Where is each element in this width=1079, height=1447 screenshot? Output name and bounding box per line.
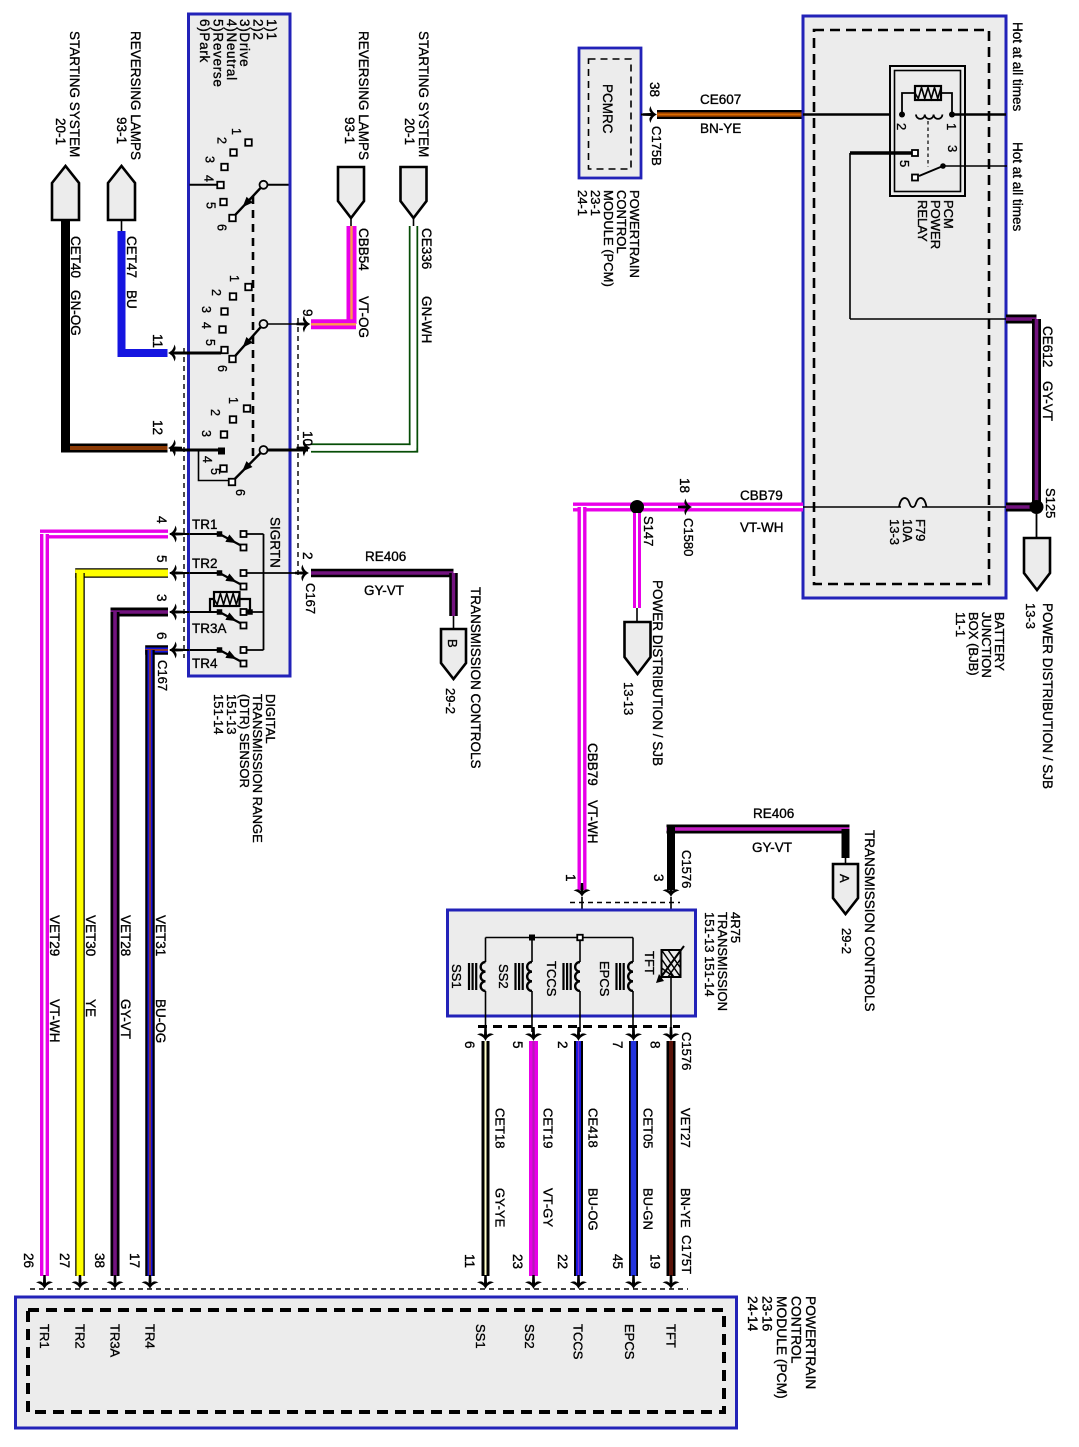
connector B (transmission controls) [441,629,466,679]
label CET40 GN-OG [68,236,83,336]
relay pin 5 [912,150,918,156]
svg-text:27: 27 [57,1253,72,1268]
svg-text:29-2: 29-2 [443,688,458,714]
svg-text:1: 1 [563,874,578,882]
DTR contact TR1 [190,517,247,551]
svg-text:3: 3 [203,156,217,163]
svg-text:VET30: VET30 [83,915,98,956]
svg-text:CE336: CE336 [419,228,434,269]
svg-text:CE612: CE612 [1040,326,1055,367]
label VET27 BN-YE [678,1108,693,1228]
svg-text:POWER DISTRIBUTION / SJB: POWER DISTRIBUTION / SJB [1040,603,1055,789]
svg-text:4: 4 [200,456,214,463]
BJB inner dashed box [814,30,989,584]
svg-text:TR2: TR2 [73,1324,88,1349]
solenoid TCCS [575,962,580,991]
connector to starting system (left) [52,166,79,220]
pin 27 arrow into PCM [72,1275,89,1289]
svg-text:TR3A: TR3A [108,1324,123,1358]
wire CE607 BN-YE [657,110,803,119]
svg-text:6: 6 [215,224,229,231]
powertrain control module box (bottom) [16,1297,737,1428]
svg-text:S147: S147 [641,516,656,546]
label POWERTRAIN CONTROL MODULE (PCM) 23-16 24-14 [745,1296,818,1399]
wire CET18 GY-YE [482,1041,490,1276]
relay suppression resistor [915,86,941,100]
svg-text:5: 5 [897,160,912,167]
DTR contact TR4 [190,647,247,671]
svg-text:TR4: TR4 [143,1324,158,1349]
relay mechanical link (dashed) [927,121,929,167]
svg-text:23: 23 [510,1254,525,1269]
pin 2 arrow out of 4R75 [570,1027,587,1041]
DTR right connector dashed boundary [297,318,299,578]
svg-text:GN-OG: GN-OG [68,290,83,336]
svg-text:3: 3 [199,306,213,313]
svg-text:C1576: C1576 [679,850,694,888]
relay pin 1 node [949,112,955,118]
svg-text:C175T: C175T [679,1235,694,1274]
4R75 transmission box [448,910,696,1016]
svg-text:TR2: TR2 [192,556,218,571]
svg-text:GY-VT: GY-VT [118,999,133,1039]
label CET05 BU-GN [641,1108,656,1230]
relay coil [916,115,942,119]
pin 38 arrow (C175B) [641,114,655,116]
svg-text:BU-OG: BU-OG [153,999,168,1043]
svg-text:6: 6 [233,489,247,496]
svg-text:20-1: 20-1 [402,118,417,145]
connector dashed boundary (bottom of 4R75) [478,1025,680,1028]
svg-text:1: 1 [944,123,959,130]
svg-text:VT-WH: VT-WH [585,800,600,844]
wire CBB79 VT-WH vertical [578,507,587,890]
svg-text:BU: BU [124,290,139,309]
splice S125 [1030,500,1044,514]
connector A (transmission controls) [833,864,858,914]
fuse F79 10A [899,498,927,507]
relay contact pin 3 [940,163,946,169]
svg-text:VT-GY: VT-GY [541,1188,556,1227]
pin 8 arrow out of 4R75 [663,1027,680,1041]
wire RE406 GY-VT (to A) [667,825,850,834]
DTR switch cluster 1 [190,128,289,231]
svg-text:A: A [837,874,852,883]
svg-text:C167: C167 [155,660,170,691]
label REVERSING LAMPS 93-1 (mid) [342,31,371,160]
pin 3 arrow (TR3A) [170,611,189,613]
svg-text:4: 4 [202,175,216,182]
svg-text:MODULE (PCM): MODULE (PCM) [774,1296,789,1399]
svg-text:11: 11 [150,334,165,348]
svg-text:11: 11 [462,1254,477,1268]
svg-text:RE406: RE406 [753,806,794,821]
PCMRC inner dashed box [589,59,632,169]
wire relay pin3 to hot feed 2 [943,165,1007,167]
pin 6 arrow (TR4) [170,649,189,651]
label CE418 BU-OG [586,1108,601,1231]
svg-text:VET28: VET28 [118,915,133,956]
svg-text:CE418: CE418 [586,1108,601,1148]
pin 12 arrow [168,440,182,457]
solenoid EPCS [628,962,633,991]
svg-text:POWER DISTRIBUTION / SJB: POWER DISTRIBUTION / SJB [650,580,665,766]
svg-text:2: 2 [555,1041,570,1049]
pin 5 arrow out of 4R75 [525,1027,542,1041]
svg-text:CET47: CET47 [124,236,139,278]
svg-text:45: 45 [610,1254,625,1269]
label CET19 VT-GY [541,1108,556,1227]
label VET31 BU-OG [153,915,168,1043]
svg-text:C1576: C1576 [679,1032,694,1070]
svg-text:13-3: 13-3 [887,519,902,545]
pin 11 arrow into PCM [477,1275,494,1289]
svg-text:RELAY: RELAY [915,200,930,242]
wire VET31 BU-OG [145,645,168,655]
svg-text:22: 22 [555,1254,570,1269]
svg-text:2: 2 [208,409,222,416]
svg-text:TR4: TR4 [192,656,218,671]
bus junction node [529,935,535,941]
label CE336 GN-WH [419,228,434,343]
svg-text:TCCS: TCCS [571,1324,586,1360]
wire CE336 GN-WH stub [413,218,415,226]
svg-text:TRANSMISSION CONTROLS: TRANSMISSION CONTROLS [862,830,877,1012]
svg-text:11-1: 11-1 [953,612,968,637]
wire relay pin1 to hot feed [952,113,1006,116]
DTR sensor box outline [189,14,291,676]
svg-text:EPCS: EPCS [597,961,612,997]
svg-text:13-13: 13-13 [621,682,636,715]
wire CET19 VT-GY [529,1041,538,1276]
label REVERSING LAMPS 93-1 (left) [114,31,143,160]
svg-text:5: 5 [204,202,218,209]
pin 11 arrow [168,345,182,362]
svg-text:151-13 151-14: 151-13 151-14 [702,912,717,997]
splice S147 [630,500,644,514]
wire CBB54 VT-OG horizontal [311,319,356,329]
svg-text:8: 8 [648,1041,663,1049]
svg-text:CBB54: CBB54 [356,228,371,271]
wire CBB54 VT-OG stub [350,218,352,226]
svg-text:4: 4 [154,516,169,524]
label PCM POWER RELAY [915,200,956,249]
wire pin1 into transmission [581,897,583,938]
wire CET47 BU horizontal [118,349,168,357]
svg-text:BU-GN: BU-GN [641,1188,656,1230]
pin 26 arrow into PCM [36,1275,53,1289]
svg-text:TFT: TFT [664,1324,679,1348]
svg-text:TFT: TFT [642,951,657,975]
PCM connector dashed line [30,1288,688,1290]
label CET47 BU [124,236,139,309]
svg-text:B: B [445,639,460,648]
label CBB79 VT-WH (v) [585,743,600,844]
svg-text:CONTROL: CONTROL [789,1296,804,1364]
resistor (TR3A parallel) [214,592,240,606]
svg-text:29-2: 29-2 [839,928,854,954]
pin 1 arrow into 4R75 [574,883,591,897]
svg-text:2: 2 [209,289,223,296]
svg-text:23-16: 23-16 [760,1296,775,1332]
pin 17 arrow into PCM [142,1275,159,1289]
wire relay pin5 to CE612 [849,153,851,319]
svg-text:4: 4 [199,322,213,329]
label POWER DISTRIBUTION / SJB 13-3 [1023,603,1055,789]
svg-text:Hot at all times: Hot at all times [1010,142,1025,232]
svg-text:GY-VT: GY-VT [364,583,404,598]
svg-text:GY-VT: GY-VT [1040,381,1055,421]
svg-text:TR1: TR1 [192,517,218,532]
svg-text:CET40: CET40 [68,236,83,278]
label STARTING SYSTEM 20-1 (left) [53,31,82,157]
svg-text:2: 2 [894,123,909,130]
svg-text:SIGRTN: SIGRTN [268,517,283,568]
label DIGITAL TRANSMISSION RANGE (DTR) SENSOR [211,694,278,843]
svg-text:3: 3 [154,594,169,602]
wire S147 to SJB connector [633,513,641,608]
label VET28 GY-VT [118,915,133,1039]
svg-text:3: 3 [199,430,213,437]
pin 4 arrow (TR1) [170,533,189,535]
svg-text:TR1: TR1 [37,1324,52,1349]
wire VET29 VT-WH [40,530,168,539]
wire CET47 BU vertical [118,231,126,353]
svg-text:10: 10 [300,431,315,446]
svg-text:26: 26 [21,1253,36,1268]
svg-text:C1580: C1580 [681,518,696,556]
pin 7 arrow out of 4R75 [625,1027,642,1041]
pin 10 arrow [297,440,311,457]
svg-text:17: 17 [127,1253,142,1268]
svg-text:7: 7 [610,1041,625,1049]
svg-text:24-1: 24-1 [575,190,590,216]
svg-text:GY-VT: GY-VT [752,840,792,855]
pin 23 arrow into PCM [525,1275,542,1289]
connector to reversing lamps (mid) [338,167,364,218]
label POWERTRAIN CONTROL MODULE (PCM) 23-1 24-1 [575,190,642,287]
solenoid SS1 [481,962,486,991]
DTR selector mechanical linkage (dashed) [252,196,255,460]
svg-text:3: 3 [651,874,666,882]
svg-text:5: 5 [203,339,217,346]
pin 22 arrow into PCM [570,1275,587,1289]
pin 6 arrow out of 4R75 [477,1027,494,1041]
wire CET47 BU stub [121,220,123,231]
svg-text:13-3: 13-3 [1023,603,1038,629]
svg-text:5: 5 [154,555,169,563]
wire CE336 GN-WH horizontal [311,443,411,445]
pin 3 arrow into 4R75 [663,883,680,897]
svg-text:VET27: VET27 [678,1108,693,1148]
svg-text:38: 38 [647,82,662,97]
svg-text:VT-WH: VT-WH [740,520,784,535]
wire CET40 GN-OG vertical [61,221,70,449]
svg-text:C167: C167 [303,583,318,614]
label 4R75 TRANSMISSION 151-13 151-14 [702,912,743,1011]
svg-text:STARTING SYSTEM: STARTING SYSTEM [67,31,82,157]
svg-text:CET19: CET19 [541,1108,556,1148]
wire CBB54 VT-OG vertical [347,226,357,324]
label VET30 YE [83,915,98,1017]
TFT sensor [662,950,681,977]
DTR gear position legend [197,19,279,88]
wire CE612 GY-VT [1006,315,1037,324]
svg-text:CBB79: CBB79 [740,488,783,503]
solenoid output wires [485,991,487,1032]
svg-text:VET31: VET31 [153,915,168,956]
wire CBB79 VT-WH horizontal [573,503,803,512]
solenoid supply bus [486,937,634,939]
wire stub to connector B [453,616,455,629]
wire C1576 black leg [667,825,675,890]
svg-text:BN-YE: BN-YE [700,121,741,136]
wire CE418 BU-OG [574,1041,583,1276]
DTR switch cluster 2 [170,275,308,372]
relay pin 2 node [899,112,905,118]
svg-text:C175B: C175B [649,126,664,166]
svg-text:SS2: SS2 [496,964,511,989]
pin 19 arrow into PCM [663,1275,680,1289]
pin 18 arrow (C1580) [678,499,692,516]
label CET18 GY-YE [493,1108,508,1228]
svg-text:TR3A: TR3A [192,621,227,636]
svg-text:18: 18 [677,478,692,493]
wire fuse to S125 [922,506,1006,508]
svg-text:VT-WH: VT-WH [47,999,62,1043]
wire CBB79 inside BJB (to fuse) [803,506,901,508]
svg-text:TCCS: TCCS [544,961,559,997]
bus tap node (pin 1) [577,935,583,941]
svg-text:24-14: 24-14 [745,1296,760,1332]
svg-text:REVERSING LAMPS: REVERSING LAMPS [128,31,143,160]
svg-text:6: 6 [462,1041,477,1049]
svg-text:6)Park: 6)Park [197,19,212,63]
svg-text:POWERTRAIN: POWERTRAIN [803,1296,818,1389]
pin 5 arrow (TR2) [170,572,189,574]
svg-text:CBB79: CBB79 [585,743,600,786]
svg-text:93-1: 93-1 [114,117,129,144]
wire pin3 into transmission [670,897,672,950]
wire to connector A [842,829,850,858]
wire CET05 BU-GN [629,1041,638,1276]
DTR left connector dashed boundary [183,348,185,658]
label VET29 VT-WH [47,915,62,1043]
label STARTING SYSTEM 20-1 (mid) [402,31,431,157]
svg-text:PCMRC: PCMRC [600,84,615,134]
svg-text:S125: S125 [1043,488,1058,518]
svg-text:151-14: 151-14 [211,694,226,734]
svg-text:2: 2 [215,137,229,144]
connector to power distribution 13-3 [1024,538,1050,590]
svg-text:GY-YE: GY-YE [493,1188,508,1228]
label CE612 GY-VT [1040,326,1055,421]
svg-text:CET18: CET18 [493,1108,508,1148]
svg-text:1: 1 [226,397,240,404]
svg-text:SS1: SS1 [473,1324,488,1349]
svg-text:BU-OG: BU-OG [586,1188,601,1231]
svg-text:9: 9 [300,309,315,317]
connector to power distribution 13-13 [625,622,651,674]
svg-text:1: 1 [227,275,241,282]
connector to reversing lamps (left) [108,166,135,220]
svg-text:VT-OG: VT-OG [356,296,371,338]
svg-text:STARTING SYSTEM: STARTING SYSTEM [416,31,431,157]
DTR SIGRTN bus [263,534,265,650]
wire RE406 GY-VT (to B) [311,569,454,578]
svg-text:2: 2 [300,552,315,560]
svg-text:6: 6 [215,365,229,372]
DTR contact TR2 (to pin 2) [190,556,247,590]
label POWER DISTRIBUTION / SJB 13-13 [621,580,665,766]
svg-text:BN-YE: BN-YE [678,1188,693,1228]
connector to starting system (mid) [401,167,427,218]
wire VET28 GY-VT [111,608,169,617]
svg-text:3: 3 [945,145,960,152]
label CBB54 VT-OG [356,228,371,338]
svg-text:VET29: VET29 [47,915,62,956]
pin 2 arrow (C167) [289,572,308,574]
svg-text:GN-WH: GN-WH [419,296,434,343]
pin 45 arrow into PCM [625,1275,642,1289]
wire VET30 YE [75,568,168,578]
svg-text:Hot at all times: Hot at all times [1010,22,1025,112]
pin 9 arrow [297,316,311,333]
wire CE607 inside BJB to relay pin 1 [803,113,952,116]
svg-text:19: 19 [648,1254,663,1269]
svg-text:REVERSING LAMPS: REVERSING LAMPS [356,31,371,160]
svg-text:1: 1 [229,128,243,135]
PCM power relay box [890,66,965,196]
svg-text:YE: YE [83,999,98,1017]
wire CET40 GN-OG horizontal [61,444,168,453]
svg-text:TRANSMISSION CONTROLS: TRANSMISSION CONTROLS [468,587,483,769]
svg-text:12: 12 [150,420,165,435]
svg-text:SS2: SS2 [522,1324,537,1349]
PCM inner dashed box [28,1310,724,1412]
wire CE336 GN-WH vertical [409,226,411,445]
svg-text:CE607: CE607 [700,92,741,107]
svg-text:20-1: 20-1 [53,118,68,145]
svg-text:RE406: RE406 [365,549,406,564]
battery junction box (BJB) [803,16,1006,598]
svg-text:SS1: SS1 [449,964,464,989]
svg-text:EPCS: EPCS [622,1324,637,1360]
wire VET27 BN-YE [667,1041,676,1276]
pin 38 arrow into PCM [107,1275,124,1289]
svg-text:93-1: 93-1 [342,117,357,144]
svg-text:5: 5 [510,1041,525,1049]
svg-text:6: 6 [154,632,169,640]
wire S125 to SJB connector [1036,514,1038,538]
svg-text:38: 38 [92,1253,107,1268]
solenoid SS2 [527,962,532,991]
PCM module box (top left) [579,48,641,178]
label BATTERY JUNCTION BOX (BJB) 11-1 [953,612,1007,678]
connector C1576 dashed boundary (top) [570,902,680,904]
DTR switch cluster 3 [170,397,308,496]
DTR contact TR3A [190,609,247,636]
svg-text:CET05: CET05 [641,1108,656,1148]
